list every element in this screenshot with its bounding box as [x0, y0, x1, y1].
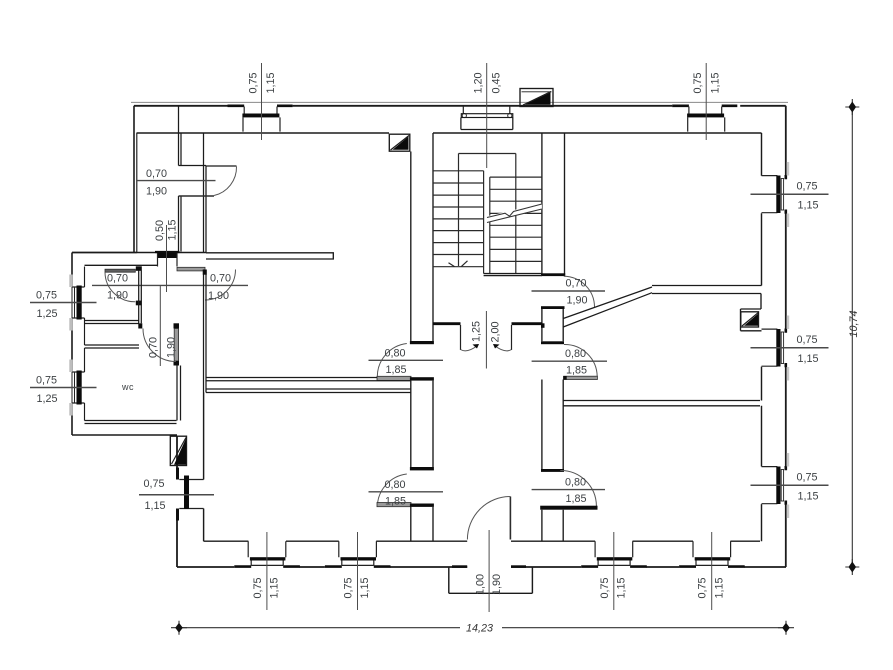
dimension line door D7: [532, 290, 606, 292]
svg-text:1,25: 1,25: [471, 321, 483, 342]
chimney marker M2 left wall: [170, 436, 186, 465]
closet right wall pair: [204, 133, 207, 253]
svg-text:0,80: 0,80: [385, 347, 406, 359]
svg-text:2,00: 2,00: [490, 321, 502, 342]
hall opening 1,25 west wall black segment: [433, 322, 461, 325]
window W8 bottom wall (0,75/1,15): [581, 532, 647, 610]
entrance porch bottom: [449, 592, 533, 594]
door D9 hinge black bit: [563, 376, 567, 380]
dimension line door D5: [369, 359, 444, 361]
wc east wall pair: [177, 366, 181, 421]
svg-text:1,90: 1,90: [146, 186, 167, 198]
window W6 bottom wall (0,75/1,15): [234, 532, 300, 610]
middle-right room south wall pair: [563, 401, 760, 406]
window W9 bottom wall (0,75/1,15): [679, 532, 745, 610]
door D6 top jamb black cap: [410, 467, 434, 470]
door D4 jamb tick top: [174, 323, 180, 328]
chimney marker M4 top-left room corner: [389, 134, 410, 151]
corridor east wall pair mid2: [542, 380, 563, 470]
svg-text:1,25: 1,25: [37, 393, 58, 405]
svg-text:1,15: 1,15: [798, 353, 819, 365]
dimension line hall opening (rotated): [485, 311, 487, 369]
door D3 leaf: [179, 195, 215, 197]
svg-text:0,80: 0,80: [385, 479, 406, 491]
door D8 swing arc: [560, 470, 596, 506]
corridor west wall pair (stair west): [411, 133, 433, 341]
overall height dimension line 10,74: [851, 107, 853, 567]
svg-text:1,15: 1,15: [798, 199, 819, 211]
window W2 top-right (0,75/1,15): [672, 63, 737, 140]
right exterior wall outer face: [785, 106, 787, 567]
svg-text:0,70: 0,70: [147, 337, 159, 358]
door D4 swing arc: [143, 329, 176, 362]
svg-text:0,75: 0,75: [697, 577, 709, 598]
top exterior wall outer face: [134, 105, 786, 107]
svg-text:0,80: 0,80: [565, 348, 586, 360]
entrance light top (1,20/0,45): [461, 63, 513, 168]
stair south wall cap: [541, 273, 565, 276]
door D6 bottom jamb black cap: [410, 504, 434, 507]
dimension line entrance (rotated): [488, 530, 490, 612]
stair landing rail: [459, 154, 516, 274]
door D2 swing arc: [205, 270, 236, 301]
svg-text:1,90: 1,90: [208, 290, 229, 302]
entrance porch right side: [531, 568, 533, 594]
dimension line door D9: [532, 360, 607, 362]
corridor east wall pair mid1: [542, 309, 563, 341]
overall width dimension line 14,23: [179, 627, 786, 629]
svg-text:0,50: 0,50: [154, 220, 166, 241]
small room bottom wall pair: [85, 321, 140, 324]
door D5 top jamb black cap: [410, 341, 434, 344]
door D4 jamb tick bottom: [174, 361, 180, 366]
svg-text:1,15: 1,15: [265, 72, 277, 93]
door D1 swing arc: [105, 272, 135, 302]
svg-text:0,70: 0,70: [566, 277, 587, 289]
svg-text:0,75: 0,75: [797, 472, 818, 484]
left main exterior wall inner face: [203, 393, 205, 542]
closet bottom header line: [179, 165, 207, 167]
svg-text:0,75: 0,75: [599, 577, 611, 598]
upper-left exterior wall (x=134 pair): [133, 106, 135, 253]
top-right room south wall pair: [652, 286, 762, 294]
door D7 bottom jamb black cap: [541, 306, 565, 309]
stair centre divider: [484, 171, 490, 274]
dimension line door D4 (rotated): [159, 285, 161, 366]
svg-text:1,15: 1,15: [616, 577, 628, 598]
door D2 leaf (closet): [177, 267, 205, 271]
svg-text:0,75: 0,75: [248, 72, 260, 93]
dimension line door D3: [137, 180, 216, 182]
door D1 leaf (hall): [105, 269, 135, 272]
top exterior wall inner face: [137, 132, 762, 134]
top room bottom wall pair A: [206, 378, 411, 381]
svg-text:0,75: 0,75: [36, 290, 57, 302]
door D8 leaf black bar: [540, 506, 597, 510]
stair treads left flight: [433, 171, 484, 267]
bottom exterior wall outer face: [177, 566, 786, 568]
svg-text:0,75: 0,75: [252, 577, 264, 598]
svg-text:1,15: 1,15: [167, 219, 179, 240]
entrance door leaf: [509, 497, 511, 540]
angled wall wedge to top-right room: [563, 287, 652, 327]
hall east wall top black cap: [203, 270, 207, 275]
wing left exterior wall outer face: [71, 253, 73, 436]
door D9 top jamb black cap: [541, 341, 564, 344]
svg-text:10,74: 10,74: [848, 310, 860, 337]
corridor east wall pair (stair east): [542, 133, 565, 274]
svg-text:0,75: 0,75: [692, 72, 704, 93]
entrance door jamb caps: [452, 565, 467, 568]
svg-text:1,85: 1,85: [386, 364, 407, 376]
corridor west wall pair bottom: [411, 507, 433, 541]
bottom exterior wall inner face: [204, 540, 760, 542]
svg-text:1,90: 1,90: [107, 290, 128, 302]
svg-text:0,75: 0,75: [797, 181, 818, 193]
door D8 top jamb black cap: [541, 469, 564, 472]
railing finger wall (hall north): [206, 253, 333, 259]
chimney marker M1 on top wall: [520, 89, 553, 107]
svg-text:1,90: 1,90: [567, 295, 588, 307]
wc top wall pair: [85, 345, 140, 348]
svg-text:0,75: 0,75: [343, 577, 355, 598]
small window 0,50 in wall H1: [154, 219, 180, 292]
door D6 swing arc: [377, 474, 407, 507]
roof overhang line top: [131, 101, 788, 103]
wall H1 outer line (wing top / hall north): [72, 252, 206, 254]
corridor east wall pair bottom: [542, 510, 563, 542]
svg-text:1,85: 1,85: [566, 365, 587, 377]
stair south wall line: [484, 274, 542, 276]
bottom-left room top wall pair B: [206, 389, 411, 393]
stair treads right flight: [490, 177, 542, 261]
door D3 header line: [206, 165, 237, 167]
door D5 bottom jamb black cap: [410, 377, 434, 380]
hall east wall pair (x203.5): [204, 275, 207, 393]
door D9 leaf: [564, 376, 598, 379]
chimney marker M3 + niche, middle-right room: [741, 294, 762, 331]
wall x139 black end cap: [138, 323, 142, 328]
svg-text:0,45: 0,45: [491, 72, 503, 93]
wall H1 inner line segments: [85, 264, 158, 266]
svg-text:0,70: 0,70: [210, 273, 231, 285]
svg-text:wc: wc: [121, 382, 134, 392]
stair break line: [486, 204, 542, 224]
svg-text:1,15: 1,15: [710, 72, 722, 93]
svg-text:14,23: 14,23: [466, 623, 493, 635]
door D5 leaf: [377, 376, 411, 380]
right exterior wall inner face: [761, 133, 763, 541]
hall opening 1,25 east wall black segment: [512, 322, 542, 325]
svg-text:0,80: 0,80: [565, 476, 586, 488]
svg-text:1,15: 1,15: [269, 577, 281, 598]
svg-text:1,15: 1,15: [145, 500, 166, 512]
svg-text:0,70: 0,70: [107, 273, 128, 285]
door D7 swing arc: [564, 276, 595, 307]
wing bottom exterior wall outer face: [72, 434, 177, 436]
wing top exterior wall outer face: [72, 252, 137, 254]
door D6 leaf: [377, 503, 411, 507]
svg-text:1,85: 1,85: [385, 495, 406, 507]
svg-text:1,15: 1,15: [798, 490, 819, 502]
entrance porch left side: [448, 568, 450, 594]
hall opening west leaf arc: [461, 346, 478, 351]
window W12 wing left wall (0,75/1,25): [30, 360, 97, 416]
svg-text:0,75: 0,75: [144, 478, 165, 490]
door D3 swing arc: [214, 167, 237, 196]
svg-text:1,15: 1,15: [359, 577, 371, 598]
dimension line door D8: [532, 489, 605, 491]
entrance door swing arc: [467, 497, 510, 540]
corridor west wall pair below D5: [411, 381, 433, 467]
svg-text:1,00: 1,00: [475, 574, 487, 595]
window W5 right wall (0,75/1,15): [751, 453, 829, 518]
svg-text:1,20: 1,20: [473, 72, 485, 93]
window W1 top-left (0,75/1,15): [228, 63, 293, 140]
svg-text:1,85: 1,85: [566, 493, 587, 505]
closet left wall pair: [179, 106, 182, 252]
wing bottom wall inner pair (wc floor): [85, 420, 177, 422]
door D9 swing arc: [564, 344, 597, 376]
svg-text:0,70: 0,70: [146, 168, 167, 180]
svg-text:1,15: 1,15: [713, 577, 725, 598]
svg-text:0,75: 0,75: [36, 375, 57, 387]
window W11 wing left wall (0,75/1,25): [30, 275, 97, 331]
dimension line doors D1/D2: [92, 284, 248, 286]
hall opening west jamb: [460, 325, 462, 350]
left main exterior wall outer face: [176, 436, 178, 567]
svg-text:1,90: 1,90: [491, 574, 503, 595]
window W4 right wall (0,75/1,15): [751, 316, 829, 381]
hall opening east jamb: [511, 325, 513, 350]
svg-text:1,90: 1,90: [166, 337, 178, 358]
door D5 swing arc: [377, 344, 407, 377]
door D4 leaf (wc): [174, 329, 178, 362]
hall opening east leaf arc: [495, 346, 512, 351]
window W3 right wall (0,75/1,15): [751, 162, 829, 227]
svg-text:0,75: 0,75: [797, 334, 818, 346]
dimension line door D6: [369, 491, 444, 493]
window W7 bottom wall (0,75/1,15): [325, 532, 391, 610]
stair up arrow: [449, 261, 468, 267]
svg-text:1,25: 1,25: [37, 308, 58, 320]
wing left exterior wall inner face: [84, 267, 86, 421]
window W10 left main wall (0,75/1,15): [139, 468, 214, 521]
wall x139 pair (hall west): [139, 271, 142, 324]
